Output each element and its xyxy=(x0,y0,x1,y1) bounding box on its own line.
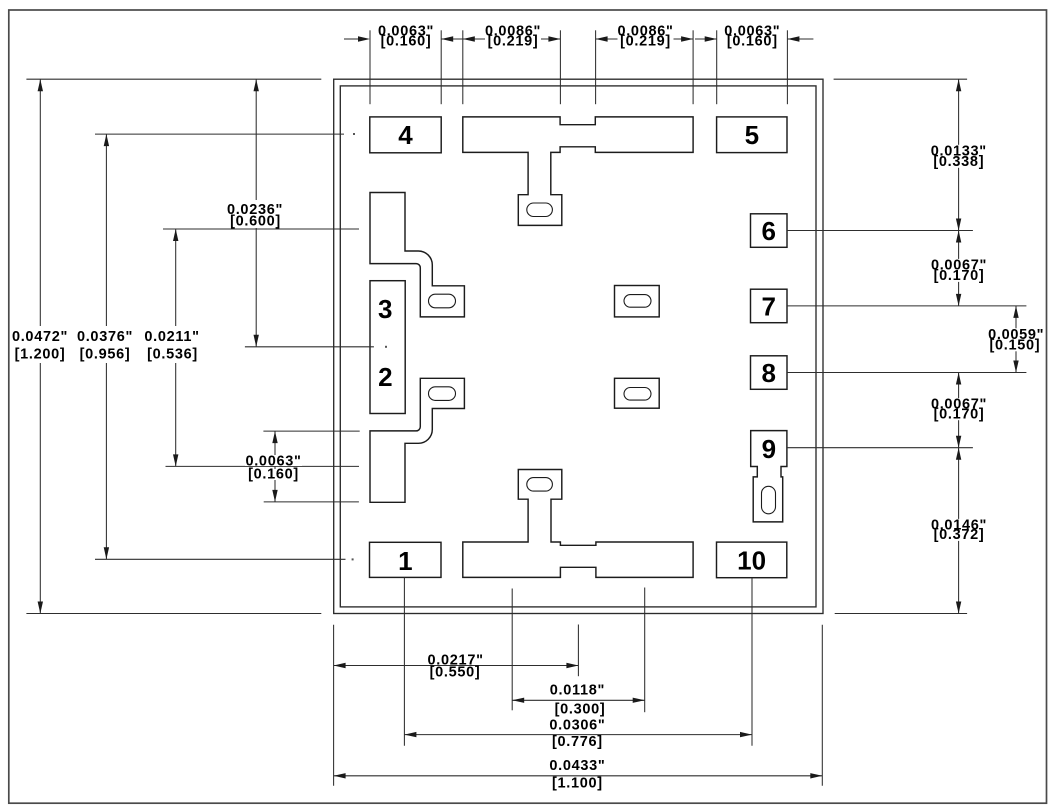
arrowhead 0.0433 right xyxy=(810,773,822,778)
ext line package centerline xyxy=(577,625,579,677)
arrowhead pad5-width left xyxy=(705,36,717,41)
leader pad 9 xyxy=(787,447,973,449)
leader pad 8 xyxy=(787,372,1026,374)
center pad lower slot xyxy=(624,388,651,401)
svg-text:0.0306": 0.0306" xyxy=(549,717,605,733)
ext line pad5 right edge xyxy=(786,30,788,104)
svg-text:6: 6 xyxy=(761,216,775,246)
svg-text:[0.160]: [0.160] xyxy=(248,467,299,483)
dim line 0.0059 xyxy=(1015,306,1017,373)
arrowhead 0.0217 right xyxy=(566,663,578,668)
ext line pad1 center xyxy=(403,578,405,746)
ext line package left edge xyxy=(333,625,335,786)
ext line pad4 center xyxy=(95,133,344,135)
arrowhead 0.0236 bottom xyxy=(254,335,259,347)
pad 9 slot xyxy=(762,486,776,514)
arrowhead 0.0059 bottom xyxy=(1013,361,1018,373)
svg-text:[0.956]: [0.956] xyxy=(80,346,131,362)
arrowhead 0.0211 bottom xyxy=(173,454,178,466)
ext line T-bar notch right xyxy=(595,30,597,104)
center pad lower xyxy=(615,378,660,408)
dim tail pad4 right xyxy=(441,38,463,40)
arrowhead 0.0086-right left xyxy=(596,36,608,41)
ext line 3/2 bar center xyxy=(245,346,374,348)
svg-text:[0.219]: [0.219] xyxy=(488,34,539,50)
ext line lower bar bottom xyxy=(264,501,359,503)
pad 5 xyxy=(717,117,787,153)
dim line 0.0236 xyxy=(255,79,257,347)
ext line T-bar right edge xyxy=(692,30,694,104)
svg-text:[0.160]: [0.160] xyxy=(727,34,778,50)
ext line package top-left xyxy=(26,78,321,80)
bottom T via slot xyxy=(527,478,553,492)
dim tail pad4 left xyxy=(344,38,359,40)
svg-text:0.0472": 0.0472" xyxy=(12,329,68,345)
leader pad 6 xyxy=(787,230,973,232)
right chained dim line upper (0.0133 + 0.0067) xyxy=(958,79,960,306)
arrowhead 0.0086-left right xyxy=(548,36,560,41)
ext line lower bar top xyxy=(263,430,359,432)
svg-text:[0.600]: [0.600] xyxy=(230,213,281,229)
svg-text:[0.170]: [0.170] xyxy=(934,268,985,284)
bottom T-bar pad with stem and via pad xyxy=(463,470,693,578)
dim line 0.0086 right xyxy=(596,38,694,40)
svg-text:[0.300]: [0.300] xyxy=(555,701,606,717)
svg-text:5: 5 xyxy=(745,120,759,150)
svg-text:[0.170]: [0.170] xyxy=(934,407,985,423)
pad 4 xyxy=(370,117,441,153)
arrowhead 0.0472 bottom xyxy=(38,602,43,614)
ext line pad1 center left xyxy=(95,558,346,560)
top T via slot xyxy=(527,203,553,217)
pad 2-lower bar with trace to thermal via pad B xyxy=(370,378,464,502)
pad 10 xyxy=(717,542,787,578)
via pad B slot xyxy=(429,387,456,401)
arrowheads right chained dims xyxy=(956,79,961,91)
arrowhead 0.0306 right xyxy=(740,732,752,737)
arrowhead 0.0086-left left xyxy=(463,36,475,41)
ext line T-bar left edge xyxy=(462,30,464,104)
svg-text:9: 9 xyxy=(762,434,776,464)
arrowhead 0.0236 top xyxy=(254,79,259,91)
pad 8 xyxy=(751,356,788,390)
svg-text:0.0376": 0.0376" xyxy=(77,329,133,345)
dim line 0.0433 xyxy=(334,775,823,777)
ext line pad10 center xyxy=(751,578,753,746)
svg-text:8: 8 xyxy=(761,358,775,388)
arrowhead 0.0118 left xyxy=(512,698,524,703)
arrowhead 0.0217 left xyxy=(334,663,346,668)
pad 3-upper bar with trace to thermal via pad A xyxy=(370,193,464,317)
pad 6 xyxy=(751,214,788,248)
ext line upper bar center xyxy=(163,228,359,230)
svg-text:[0.338]: [0.338] xyxy=(933,154,984,170)
svg-text:[0.776]: [0.776] xyxy=(552,734,603,750)
dim line 0.0217 xyxy=(334,665,579,667)
svg-text:[0.536]: [0.536] xyxy=(147,346,198,362)
svg-text:0.0433": 0.0433" xyxy=(549,758,605,774)
right ext line bottom xyxy=(835,613,967,615)
svg-text:1: 1 xyxy=(398,546,412,576)
ext line lower bar center xyxy=(166,465,360,467)
arrowhead 0.0118 right xyxy=(633,698,645,703)
svg-text:[0.219]: [0.219] xyxy=(620,34,671,50)
ext line pad4 right edge xyxy=(440,30,442,104)
svg-text:3: 3 xyxy=(378,294,392,324)
arrowhead pad4-width left xyxy=(358,36,370,41)
top T-bar pad with stem and via pad xyxy=(463,117,693,225)
stray speck marks from source drawing xyxy=(352,133,387,560)
svg-text:[1.100]: [1.100] xyxy=(552,776,603,792)
svg-text:[0.372]: [0.372] xyxy=(934,527,985,543)
pad 1 xyxy=(370,542,442,577)
arrowhead 0.0063-left bottom xyxy=(272,490,277,502)
ext line pad5 left edge xyxy=(716,30,718,104)
arrowhead 0.0086-right right xyxy=(681,36,693,41)
dim line 0.0306 xyxy=(404,734,752,736)
dim line 0.0086 left xyxy=(463,38,561,40)
right chained dim line lower (0.0067 + 0.0146) xyxy=(958,373,960,614)
center pad upper slot xyxy=(624,295,651,308)
ext line pad4 left edge xyxy=(369,30,371,104)
arrowhead 0.0063-left top xyxy=(272,431,277,443)
arrowhead 0.0211 top xyxy=(173,229,178,241)
dim tail pad5 right xyxy=(787,38,813,40)
dim line 0.0063 left xyxy=(274,431,276,502)
via pad A slot xyxy=(429,294,456,308)
ext line package right edge xyxy=(821,625,823,786)
dim line 0.0211 xyxy=(175,229,177,466)
package outline inner xyxy=(340,86,816,607)
arrowhead 0.0059 top xyxy=(1013,306,1018,318)
ext line 0.0118 right xyxy=(644,588,646,713)
arrowhead 0.0472 top xyxy=(38,79,43,91)
arrowhead 0.0376 bottom xyxy=(104,547,109,559)
package outline outer xyxy=(334,79,823,613)
ext line T-bar notch left xyxy=(559,30,561,104)
svg-text:0.0118": 0.0118" xyxy=(550,683,605,699)
svg-text:[0.150]: [0.150] xyxy=(989,337,1040,353)
ext line package bottom-left xyxy=(26,613,321,615)
leader pad 7 xyxy=(787,305,1026,307)
center pad upper xyxy=(615,286,660,317)
arrowhead pad4-width right xyxy=(441,36,453,41)
dim line 0.0472 xyxy=(39,79,41,613)
svg-text:0.0211": 0.0211" xyxy=(144,329,199,345)
right ext line top xyxy=(834,78,968,80)
pad 7 xyxy=(751,289,788,323)
arrowhead 0.0376 top xyxy=(104,134,109,146)
ext line 0.0118 left xyxy=(511,589,513,711)
arrowhead 0.0306 left xyxy=(404,732,416,737)
arrowhead 0.0433 left xyxy=(334,773,346,778)
svg-text:[0.550]: [0.550] xyxy=(430,664,481,680)
svg-text:[0.160]: [0.160] xyxy=(381,34,432,50)
svg-text:2: 2 xyxy=(378,362,392,392)
text white backgrounds xyxy=(11,36,1045,541)
pad 3/2 bar xyxy=(370,281,405,414)
arrowhead pad5-width right xyxy=(787,36,799,41)
dim line 0.0118 xyxy=(512,699,645,701)
dim tail pad5 left xyxy=(695,38,717,40)
pad 9 composite xyxy=(751,431,787,522)
dim line 0.0376 xyxy=(105,134,107,559)
svg-text:7: 7 xyxy=(761,291,775,321)
svg-text:4: 4 xyxy=(398,120,413,150)
svg-text:[1.200]: [1.200] xyxy=(15,346,66,362)
svg-text:10: 10 xyxy=(737,545,766,575)
